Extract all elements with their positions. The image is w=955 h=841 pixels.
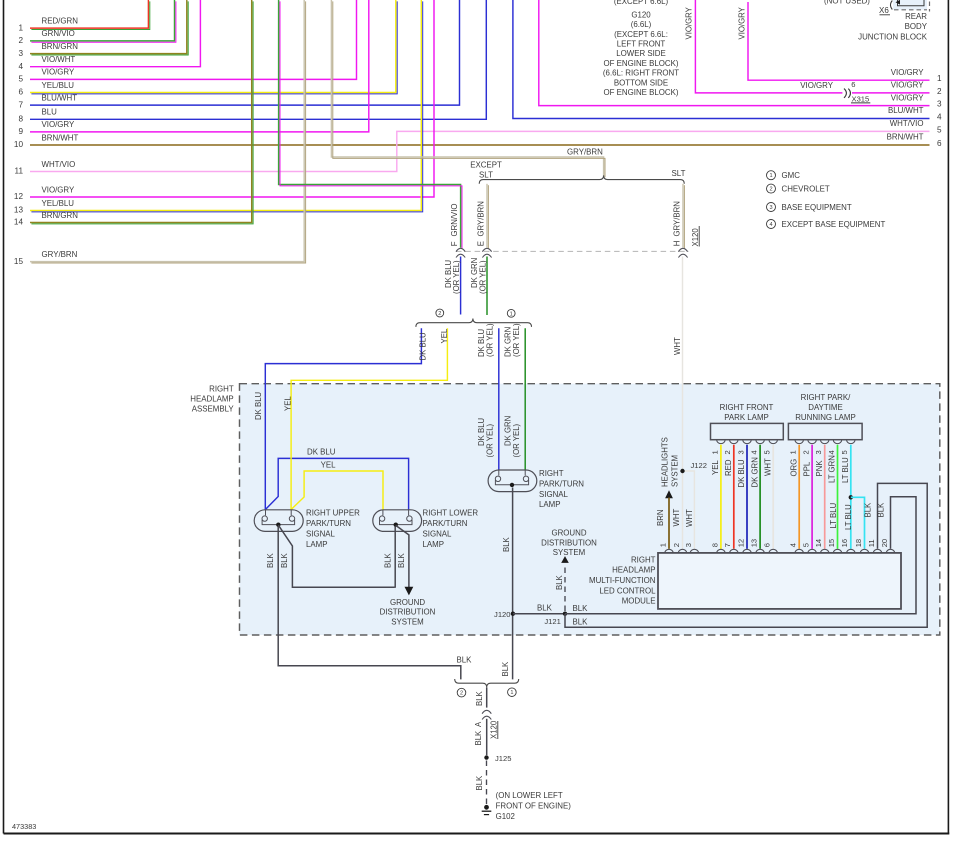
module pin 13 bbox=[756, 549, 765, 553]
svg-text:6: 6 bbox=[937, 139, 942, 148]
ground G102 bbox=[484, 805, 489, 810]
svg-text:PARK/TURN: PARK/TURN bbox=[423, 519, 468, 528]
wire YEL to right upper lamp bbox=[291, 328, 447, 510]
right front park lamp box bbox=[711, 423, 784, 439]
svg-text:(EXCEPT 6.6L): (EXCEPT 6.6L) bbox=[614, 0, 669, 6]
legend 3 BASE EQUIPMENT bbox=[767, 203, 776, 212]
svg-text:GRY/BRN: GRY/BRN bbox=[42, 250, 78, 259]
svg-text:BRN/GRN: BRN/GRN bbox=[42, 42, 79, 51]
svg-text:BLK: BLK bbox=[475, 690, 484, 706]
svg-text:VIO/WHT: VIO/WHT bbox=[42, 55, 76, 64]
svg-text:2: 2 bbox=[802, 450, 811, 454]
right wire 2 VIO/GRY after X315 bbox=[852, 92, 930, 94]
svg-text:1: 1 bbox=[789, 450, 798, 454]
svg-text:2: 2 bbox=[460, 691, 463, 697]
svg-text:6: 6 bbox=[763, 543, 772, 547]
svg-text:YEL/BLU: YEL/BLU bbox=[42, 81, 75, 90]
svg-text:SLT: SLT bbox=[479, 170, 493, 179]
svg-text:LAMP: LAMP bbox=[306, 540, 328, 549]
svg-text:473383: 473383 bbox=[12, 822, 36, 831]
park lamp pin 2 wire RED bbox=[730, 440, 739, 444]
daytime lamp pin 3 wire PNK bbox=[820, 440, 829, 444]
connector X120 dashed line bbox=[456, 250, 689, 252]
svg-text:F: F bbox=[450, 241, 459, 246]
svg-text:LAMP: LAMP bbox=[423, 540, 445, 549]
svg-text:RIGHT FRONT: RIGHT FRONT bbox=[720, 403, 774, 412]
svg-text:DK GRN: DK GRN bbox=[750, 457, 759, 487]
svg-text:WHT/VIO: WHT/VIO bbox=[42, 160, 76, 169]
svg-text:PNK: PNK bbox=[815, 460, 824, 477]
svg-text:BLK: BLK bbox=[555, 574, 564, 590]
svg-text:VIO/GRY: VIO/GRY bbox=[891, 93, 924, 102]
svg-text:1: 1 bbox=[710, 450, 719, 454]
park lamp pin 5 wire WHT bbox=[769, 440, 778, 444]
module pin 3 bbox=[690, 549, 699, 553]
lamp right upper park/turn signal bbox=[254, 510, 303, 532]
wire 12 VIO/GRY bbox=[30, 0, 434, 197]
module pin 6 bbox=[769, 549, 778, 553]
module pin 11 bbox=[873, 549, 882, 553]
svg-text:BLK: BLK bbox=[502, 536, 511, 552]
page border bottom bbox=[4, 833, 950, 835]
svg-text:VIO/GRY: VIO/GRY bbox=[891, 68, 924, 77]
svg-text:RIGHT: RIGHT bbox=[631, 555, 656, 564]
wire H GRY/BRN bbox=[682, 184, 684, 248]
svg-text:MULTI-FUNCTION: MULTI-FUNCTION bbox=[589, 576, 656, 585]
svg-text:X120: X120 bbox=[691, 228, 700, 247]
svg-text:YEL: YEL bbox=[711, 460, 720, 475]
wire 14 BRN/GRN bbox=[30, 0, 252, 223]
wire DK BLU feeder to right lower lamp bbox=[266, 458, 409, 509]
legend 4 EXCEPT BASE EQUIPMENT bbox=[767, 220, 776, 229]
svg-text:6: 6 bbox=[18, 88, 23, 97]
svg-text:4: 4 bbox=[750, 450, 759, 454]
svg-text:DK BLU: DK BLU bbox=[418, 332, 427, 361]
svg-text:(OR YEL): (OR YEL) bbox=[452, 260, 461, 294]
svg-text:1: 1 bbox=[658, 543, 667, 547]
svg-text:BASE EQUIPMENT: BASE EQUIPMENT bbox=[782, 203, 852, 212]
svg-text:FRONT OF ENGINE): FRONT OF ENGINE) bbox=[496, 801, 572, 810]
page border left bbox=[3, 0, 5, 834]
svg-text:18: 18 bbox=[854, 539, 863, 547]
svg-text:MODULE: MODULE bbox=[622, 597, 656, 606]
wire WHT branch J122 to module pin 3 bbox=[683, 471, 695, 549]
svg-text:GMC: GMC bbox=[782, 171, 801, 180]
wire BLK from right upper lamp bbox=[278, 527, 461, 680]
wire WHT from pin H to module pin 2 bbox=[682, 257, 684, 549]
svg-text:LAMP: LAMP bbox=[539, 500, 561, 509]
module pin 20 bbox=[886, 549, 895, 553]
svg-text:OF ENGINE BLOCK): OF ENGINE BLOCK) bbox=[604, 59, 679, 68]
svg-text:GROUND: GROUND bbox=[551, 529, 586, 538]
svg-text:(NOT USED): (NOT USED) bbox=[824, 0, 870, 6]
svg-text:RIGHT PARK/: RIGHT PARK/ bbox=[801, 393, 851, 402]
wire DK BLU to right upper lamp bbox=[265, 328, 421, 510]
svg-text:11: 11 bbox=[15, 167, 24, 176]
svg-text:3: 3 bbox=[814, 450, 823, 454]
svg-text:SIGNAL: SIGNAL bbox=[539, 490, 569, 499]
svg-text:HEADLAMP: HEADLAMP bbox=[190, 395, 233, 404]
svg-text:15: 15 bbox=[14, 257, 24, 266]
wire E GRY/BRN bbox=[486, 184, 488, 248]
svg-text:EXCEPT: EXCEPT bbox=[470, 160, 502, 169]
wire BLK dashed to G102 bbox=[486, 761, 488, 805]
svg-text:2: 2 bbox=[438, 311, 441, 317]
wire 3 BRN/GRN bbox=[30, 0, 187, 54]
svg-text:BLK: BLK bbox=[397, 552, 406, 568]
svg-text:13: 13 bbox=[14, 206, 24, 215]
svg-text:5: 5 bbox=[802, 543, 811, 547]
svg-text:VIO/GRY: VIO/GRY bbox=[42, 185, 75, 194]
svg-text:HEADLIGHTS: HEADLIGHTS bbox=[660, 437, 669, 487]
svg-text:VIO/GRY: VIO/GRY bbox=[685, 6, 694, 39]
variant circle 2 bbox=[436, 309, 444, 317]
svg-text:SIGNAL: SIGNAL bbox=[423, 529, 453, 538]
daytime lamp pin 2 wire PPL bbox=[808, 440, 817, 444]
svg-text:10: 10 bbox=[14, 140, 24, 149]
svg-text:2: 2 bbox=[769, 187, 772, 193]
svg-text:11: 11 bbox=[867, 539, 876, 547]
svg-text:PARK LAMP: PARK LAMP bbox=[724, 413, 769, 422]
svg-text:YEL: YEL bbox=[321, 461, 337, 470]
svg-text:GRN/VIO: GRN/VIO bbox=[450, 204, 459, 237]
svg-text:4: 4 bbox=[937, 112, 942, 121]
svg-text:VIO/GRY: VIO/GRY bbox=[42, 68, 75, 77]
svg-text:RIGHT UPPER: RIGHT UPPER bbox=[306, 509, 360, 518]
module pin 14 bbox=[820, 549, 829, 553]
junction J125 bbox=[484, 755, 488, 759]
connector X120 lower bbox=[482, 710, 491, 713]
wire BLK J120 to J121 bbox=[513, 613, 565, 615]
junction J120 bbox=[511, 612, 515, 616]
svg-text:BLK: BLK bbox=[864, 502, 873, 518]
svg-text:WHT: WHT bbox=[672, 509, 681, 527]
svg-text:REAR: REAR bbox=[905, 12, 927, 21]
svg-text:(ON LOWER LEFT: (ON LOWER LEFT bbox=[496, 791, 563, 800]
svg-text:BODY: BODY bbox=[905, 22, 928, 31]
svg-text:BLK: BLK bbox=[877, 502, 886, 518]
variant circle 1 bbox=[507, 309, 515, 317]
svg-text:GRY/BRN: GRY/BRN bbox=[672, 201, 681, 236]
svg-text:RED: RED bbox=[724, 459, 733, 476]
brace variants 2 and 1 bottom bbox=[455, 679, 519, 687]
module pin 16 bbox=[847, 549, 856, 553]
svg-text:LT GRN: LT GRN bbox=[828, 455, 837, 483]
page border right bbox=[947, 0, 949, 834]
svg-text:BLU/WHT: BLU/WHT bbox=[42, 93, 78, 102]
wire DK GRN (OR YEL) to park/turn lamp bbox=[524, 328, 526, 470]
svg-text:(EXCEPT 6.6L:: (EXCEPT 6.6L: bbox=[614, 30, 668, 39]
brace EXCEPT SLT / SLT bbox=[479, 175, 684, 183]
wire LT BLU pin 5 to module pin 16 bbox=[850, 445, 852, 549]
svg-text:LEFT FRONT: LEFT FRONT bbox=[617, 40, 666, 49]
connector X120 pin F bbox=[456, 248, 465, 251]
svg-text:8: 8 bbox=[710, 543, 719, 547]
right wire 3 VIO/GRY bbox=[539, 0, 930, 106]
svg-text:J125: J125 bbox=[495, 754, 511, 763]
svg-text:1: 1 bbox=[769, 173, 772, 179]
svg-text:BLK: BLK bbox=[384, 552, 393, 568]
wire 1 RED/GRN bbox=[30, 0, 148, 28]
park lamp pin 4 wire DK GRN bbox=[756, 440, 765, 444]
svg-text:BLK: BLK bbox=[573, 604, 589, 613]
daytime lamp pin 1 wire ORG bbox=[795, 440, 804, 444]
wire BLK dashed to ground distribution system bbox=[564, 564, 566, 611]
svg-text:WHT: WHT bbox=[763, 458, 772, 476]
svg-text:VIO/GRY: VIO/GRY bbox=[42, 120, 75, 129]
svg-text:4: 4 bbox=[789, 543, 798, 547]
svg-text:J121: J121 bbox=[544, 617, 560, 626]
svg-text:(OR YEL): (OR YEL) bbox=[485, 423, 494, 457]
wire BRN to module pin 1 bbox=[668, 498, 670, 549]
wire BLK J121 to module pin 20 bbox=[565, 497, 916, 614]
wire 7 BLU/WHT bbox=[30, 0, 460, 105]
wire BLK to ground distribution arrow bbox=[396, 525, 409, 587]
svg-text:WHT/VIO: WHT/VIO bbox=[890, 119, 924, 128]
svg-text:GRY/BRN: GRY/BRN bbox=[476, 201, 485, 236]
module pin 15 bbox=[833, 549, 842, 553]
svg-text:A: A bbox=[474, 721, 483, 727]
svg-text:SYSTEM: SYSTEM bbox=[553, 548, 585, 557]
wire 10 BRN/WHT full width bbox=[30, 144, 930, 146]
svg-text:VIO/GRY: VIO/GRY bbox=[800, 81, 833, 90]
svg-text:20: 20 bbox=[880, 539, 889, 547]
svg-text:4: 4 bbox=[769, 222, 772, 228]
lamp right park/turn signal bbox=[488, 470, 537, 492]
svg-text:EXCEPT BASE EQUIPMENT: EXCEPT BASE EQUIPMENT bbox=[782, 220, 886, 229]
svg-text:1: 1 bbox=[937, 74, 942, 83]
svg-text:7: 7 bbox=[18, 100, 23, 109]
svg-text:5: 5 bbox=[18, 75, 23, 84]
arrow ground distribution system bbox=[405, 587, 414, 596]
right park/daytime running lamp box bbox=[788, 423, 862, 439]
svg-text:WHT: WHT bbox=[685, 509, 694, 527]
wire BLK diagonal from right upper lamp bbox=[278, 525, 394, 587]
svg-text:9: 9 bbox=[18, 127, 23, 136]
svg-text:BLK: BLK bbox=[501, 661, 510, 677]
svg-text:YEL/BLU: YEL/BLU bbox=[42, 199, 75, 208]
svg-text:OF ENGINE BLOCK): OF ENGINE BLOCK) bbox=[604, 88, 679, 97]
svg-text:DK BLU: DK BLU bbox=[737, 459, 746, 488]
module pin 18 bbox=[860, 549, 869, 553]
svg-text:BLK: BLK bbox=[280, 552, 289, 568]
daytime lamp pin 4 wire LT GRN bbox=[833, 440, 842, 444]
park lamp pin 3 wire DK BLU bbox=[743, 440, 752, 444]
svg-text:(OR YEL): (OR YEL) bbox=[512, 323, 521, 357]
wire DK BLU (OR YEL) from pin F bbox=[460, 257, 462, 315]
svg-text:WHT: WHT bbox=[673, 337, 682, 355]
wire 5 VIO/GRY bbox=[30, 0, 357, 79]
svg-text:1: 1 bbox=[18, 23, 23, 32]
junction J121 bbox=[563, 612, 567, 616]
svg-text:13: 13 bbox=[750, 539, 759, 547]
svg-text:12: 12 bbox=[736, 539, 745, 547]
svg-text:J120: J120 bbox=[494, 610, 510, 619]
module pin 8 bbox=[717, 549, 726, 553]
variant circle 1 bottom bbox=[508, 688, 517, 697]
module pin 5 bbox=[808, 549, 817, 553]
lamp right lower park/turn signal bbox=[373, 510, 422, 532]
svg-text:BLU/WHT: BLU/WHT bbox=[888, 106, 924, 115]
svg-text:BLK: BLK bbox=[474, 730, 483, 746]
svg-text:BRN/WHT: BRN/WHT bbox=[42, 133, 79, 142]
svg-text:H: H bbox=[672, 241, 681, 247]
svg-text:(OR YEL): (OR YEL) bbox=[479, 260, 488, 294]
svg-text:E: E bbox=[476, 241, 485, 246]
module pin 2 bbox=[678, 549, 687, 553]
svg-text:LT BLU: LT BLU bbox=[844, 504, 853, 530]
wire BLK below brace bbox=[486, 688, 488, 708]
svg-text:LT BLU: LT BLU bbox=[829, 502, 838, 528]
legend 1 GMC bbox=[767, 171, 776, 180]
connector X120 pin H bbox=[678, 248, 687, 251]
svg-text:BLU: BLU bbox=[42, 108, 58, 117]
svg-text:16: 16 bbox=[840, 539, 849, 547]
svg-text:RED/GRN: RED/GRN bbox=[42, 16, 79, 25]
svg-text:3: 3 bbox=[736, 450, 745, 454]
wire 2 GRN/VIO bbox=[30, 0, 175, 41]
svg-text:LED CONTROL: LED CONTROL bbox=[599, 586, 656, 595]
svg-text:3: 3 bbox=[769, 205, 772, 211]
svg-text:3: 3 bbox=[684, 543, 693, 547]
daytime lamp pin 5 wire LT BLU bbox=[847, 440, 856, 444]
svg-text:DISTRIBUTION: DISTRIBUTION bbox=[541, 538, 597, 547]
svg-text:VIO/GRY: VIO/GRY bbox=[891, 81, 924, 90]
module pin 4 bbox=[795, 549, 804, 553]
wire LT BLU branch to module pin 18 bbox=[851, 497, 865, 549]
svg-text:(OR YEL): (OR YEL) bbox=[485, 323, 494, 357]
wire BLK A below connector bbox=[486, 719, 488, 755]
svg-text:5: 5 bbox=[937, 125, 942, 134]
svg-text:DISTRIBUTION: DISTRIBUTION bbox=[380, 608, 436, 617]
svg-text:VIO/GRY: VIO/GRY bbox=[738, 6, 747, 39]
svg-text:G120: G120 bbox=[631, 10, 651, 19]
wire DK BLU (OR YEL) to park/turn lamp bbox=[498, 328, 500, 470]
svg-text:BLK: BLK bbox=[573, 617, 589, 626]
svg-text:LT BLU: LT BLU bbox=[841, 457, 850, 483]
junction J122 bbox=[680, 469, 684, 473]
wire GRY/BRN to brace bbox=[331, 0, 603, 176]
park lamp pin 1 wire YEL bbox=[717, 440, 726, 444]
svg-text:(6.6L: RIGHT FRONT: (6.6L: RIGHT FRONT bbox=[603, 69, 679, 78]
svg-text:(6.6L): (6.6L) bbox=[631, 20, 652, 29]
svg-text:5: 5 bbox=[840, 450, 849, 454]
svg-text:4: 4 bbox=[827, 450, 836, 454]
svg-text:12: 12 bbox=[14, 192, 24, 201]
svg-text:2: 2 bbox=[723, 450, 732, 454]
right wire 1 VIO/GRY bbox=[748, 2, 930, 80]
junction LT BLU split bbox=[849, 495, 853, 499]
svg-text:8: 8 bbox=[18, 115, 23, 124]
svg-text:PARK/TURN: PARK/TURN bbox=[306, 519, 351, 528]
connector X120 pin E bbox=[482, 248, 491, 251]
variant circle 2 bottom bbox=[457, 688, 466, 697]
wire DK GRN (OR YEL) from pin E bbox=[486, 257, 488, 316]
wire BLK J121 to module pin 11 bbox=[565, 483, 927, 627]
svg-text:LOWER SIDE: LOWER SIDE bbox=[616, 49, 666, 58]
right headlamp assembly box bbox=[240, 384, 940, 635]
wire 9 VIO/GRY bbox=[30, 0, 369, 132]
svg-text:5: 5 bbox=[763, 450, 772, 454]
svg-text:BRN/GRN: BRN/GRN bbox=[42, 211, 79, 220]
svg-text:ASSEMBLY: ASSEMBLY bbox=[192, 405, 235, 414]
arrow to ground distribution system text bbox=[561, 556, 569, 563]
svg-text:BRN: BRN bbox=[656, 510, 665, 526]
svg-text:(OR YEL): (OR YEL) bbox=[512, 423, 521, 457]
svg-text:ORG: ORG bbox=[789, 459, 798, 477]
wire BLK from right lower lamp bbox=[394, 527, 396, 588]
svg-text:YEL: YEL bbox=[440, 328, 449, 343]
svg-text:2: 2 bbox=[18, 36, 23, 45]
svg-text:2: 2 bbox=[672, 543, 681, 547]
svg-text:1: 1 bbox=[510, 690, 513, 696]
svg-text:G102: G102 bbox=[496, 812, 515, 821]
svg-text:SIGNAL: SIGNAL bbox=[306, 529, 336, 538]
svg-text:BLK: BLK bbox=[266, 552, 275, 568]
svg-text:4: 4 bbox=[18, 62, 23, 71]
legend 2 CHEVROLET bbox=[767, 184, 776, 193]
svg-text:1: 1 bbox=[510, 311, 513, 317]
svg-text:BLK: BLK bbox=[475, 775, 484, 791]
right headlamp multi-function led control module box bbox=[658, 553, 901, 609]
wire F GRN/VIO bbox=[279, 0, 461, 248]
svg-text:RUNNING LAMP: RUNNING LAMP bbox=[795, 413, 856, 422]
svg-text:SYSTEM: SYSTEM bbox=[391, 617, 423, 626]
wire 6 YEL/BLU bbox=[30, 0, 396, 93]
svg-text:RIGHT: RIGHT bbox=[209, 384, 234, 393]
svg-text:2: 2 bbox=[937, 87, 942, 96]
svg-text:BOTTOM SIDE: BOTTOM SIDE bbox=[614, 78, 668, 87]
svg-text:CHEVROLET: CHEVROLET bbox=[782, 185, 830, 194]
svg-text:BLK: BLK bbox=[457, 655, 473, 664]
brace variants 2 and 1 bbox=[416, 319, 532, 327]
svg-text:15: 15 bbox=[827, 539, 836, 547]
svg-text:7: 7 bbox=[723, 543, 732, 547]
svg-text:PPL: PPL bbox=[802, 461, 811, 476]
svg-text:SYSTEM: SYSTEM bbox=[670, 455, 679, 487]
svg-text:X120: X120 bbox=[489, 720, 498, 739]
wire 4 VIO/WHT bbox=[30, 0, 200, 67]
wire 15 GRY/BRN bbox=[30, 0, 304, 262]
svg-text:DAYTIME: DAYTIME bbox=[808, 403, 843, 412]
svg-text:DK BLU: DK BLU bbox=[254, 391, 263, 420]
wire 8 BLU bbox=[30, 0, 486, 119]
connector X6 block bbox=[893, 0, 927, 10]
svg-text:X6: X6 bbox=[879, 6, 889, 15]
wire 11 WHT/VIO to right edge bbox=[30, 131, 930, 171]
svg-text:GROUND: GROUND bbox=[390, 598, 425, 607]
svg-text:GRY/BRN: GRY/BRN bbox=[567, 147, 603, 156]
right wire 4 BLU/WHT bbox=[513, 0, 930, 119]
svg-text:JUNCTION BLOCK: JUNCTION BLOCK bbox=[858, 32, 928, 41]
connector X315 bbox=[844, 89, 846, 98]
svg-text:HEADLAMP: HEADLAMP bbox=[612, 566, 655, 575]
arrow headlights system bbox=[665, 490, 673, 498]
svg-text:J122: J122 bbox=[691, 461, 707, 470]
svg-text:BRN/WHT: BRN/WHT bbox=[887, 133, 924, 142]
svg-text:BLK: BLK bbox=[537, 604, 553, 613]
svg-text:PARK/TURN: PARK/TURN bbox=[539, 479, 584, 488]
svg-text:3: 3 bbox=[937, 100, 942, 109]
svg-text:RIGHT LOWER: RIGHT LOWER bbox=[423, 509, 479, 518]
module pin 12 bbox=[743, 549, 752, 553]
wire 13 YEL/BLU bbox=[30, 0, 421, 211]
wire YEL feeder to right lower lamp bbox=[291, 471, 383, 510]
svg-text:6: 6 bbox=[851, 80, 855, 89]
module pin 7 bbox=[730, 549, 739, 553]
svg-text:14: 14 bbox=[814, 539, 823, 547]
wire BLK from park/turn lamp to J120 and brace bbox=[512, 488, 514, 680]
